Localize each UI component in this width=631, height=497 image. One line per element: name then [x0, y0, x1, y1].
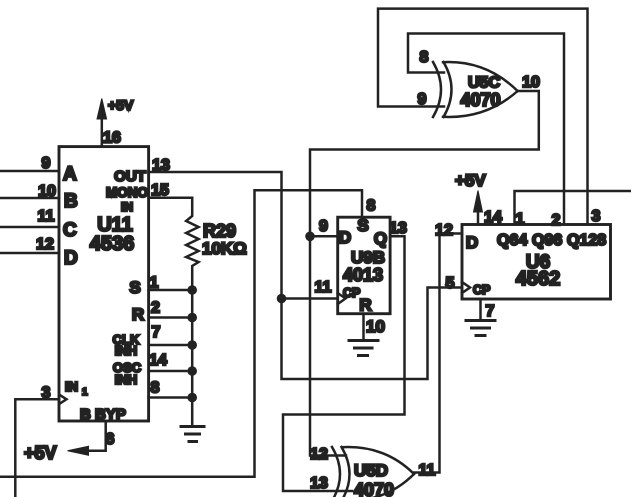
svg-text:OUT: OUT — [114, 168, 146, 185]
svg-text:Q64: Q64 — [497, 232, 527, 249]
xor gate U5C 4070 — [433, 62, 518, 117]
input wedge IN1 on U11 — [60, 395, 67, 404]
svg-text:1: 1 — [150, 275, 159, 292]
svg-text:4070: 4070 — [460, 90, 500, 110]
svg-text:13: 13 — [389, 220, 407, 237]
node junction at U9B D input — [305, 218, 338, 241]
svg-text:16: 16 — [103, 130, 121, 147]
power +5V pin 6 of U11 (arrow left) — [24, 421, 115, 463]
svg-text:3: 3 — [42, 385, 51, 402]
svg-text:9: 9 — [42, 155, 51, 172]
svg-text:4562: 4562 — [516, 268, 561, 290]
wire pin chain S R CLKINH OSCINH B to ground — [149, 275, 193, 426]
wire U5C input pin 9 from U6 pin 3 net — [378, 9, 588, 224]
ground U9B pin 10 — [349, 314, 385, 356]
svg-text:9: 9 — [319, 218, 328, 235]
svg-text:13: 13 — [152, 157, 170, 174]
svg-text:14: 14 — [484, 209, 502, 226]
ground below chain — [181, 427, 204, 442]
svg-text:12: 12 — [310, 446, 328, 463]
power +5V pin 14 of U6 — [455, 171, 502, 226]
svg-text:+5V: +5V — [108, 97, 134, 113]
svg-text:+5V: +5V — [24, 443, 57, 463]
xor gate U5D 4070 — [332, 447, 414, 497]
svg-text:15: 15 — [151, 182, 169, 199]
svg-text:S: S — [129, 278, 140, 297]
wire U9B Q pin 13 to U5D pin 13 — [283, 220, 407, 492]
svg-text:8: 8 — [367, 198, 376, 215]
svg-text:IN: IN — [65, 379, 78, 394]
clock wedge U6 CP — [462, 282, 470, 293]
power +5V pin 16 of U11 — [97, 97, 134, 147]
svg-text:B BYP: B BYP — [80, 406, 126, 423]
svg-text:INH: INH — [115, 372, 137, 387]
svg-text:14: 14 — [149, 352, 167, 369]
wire U6 D pin 12 from U5D output 11 — [414, 222, 462, 479]
wire input D (pin 12) — [0, 236, 59, 253]
svg-text:A: A — [63, 164, 77, 185]
svg-text:5: 5 — [446, 275, 455, 292]
svg-text:D: D — [64, 248, 78, 269]
svg-text:1: 1 — [516, 211, 525, 228]
node junction dots on chain — [187, 285, 197, 402]
svg-text:12: 12 — [36, 236, 54, 253]
resistor R29 10K — [186, 198, 247, 289]
svg-text:+5V: +5V — [455, 171, 486, 190]
svg-text:R: R — [132, 305, 144, 324]
svg-text:8: 8 — [420, 49, 429, 66]
flip-flop U9B 4013 body — [338, 216, 390, 315]
svg-text:U5D: U5D — [354, 461, 388, 480]
wire U6 pin 1 to right edge — [515, 191, 631, 228]
wire U5C output pin 10 to U9B.D and U5D.12 — [310, 74, 540, 456]
svg-text:13: 13 — [310, 475, 328, 492]
svg-text:2: 2 — [552, 212, 561, 229]
svg-text:10: 10 — [522, 74, 540, 91]
svg-text:10: 10 — [366, 317, 385, 336]
svg-text:U5C: U5C — [468, 75, 500, 92]
svg-text:IN: IN — [121, 200, 133, 214]
svg-text:Q96: Q96 — [532, 232, 562, 249]
svg-text:C: C — [63, 220, 77, 241]
wire OUT pin 13 net: U11.13 to U9B.CP and U6.CP — [149, 157, 462, 379]
svg-text:11: 11 — [419, 462, 436, 479]
svg-text:CP: CP — [473, 283, 490, 297]
svg-text:4536: 4536 — [90, 233, 135, 255]
svg-text:4070: 4070 — [354, 480, 394, 497]
svg-text:D: D — [339, 228, 351, 247]
svg-text:MONO: MONO — [106, 185, 148, 200]
svg-text:S: S — [357, 216, 368, 235]
svg-text:10KΩ: 10KΩ — [202, 239, 247, 258]
svg-text:R: R — [359, 296, 371, 315]
wire input C (pin 11) — [0, 208, 59, 227]
svg-text:3: 3 — [592, 208, 601, 225]
svg-text:INH: INH — [115, 343, 137, 358]
svg-text:6: 6 — [106, 431, 115, 448]
svg-text:D: D — [466, 233, 478, 252]
svg-text:12: 12 — [435, 222, 453, 239]
wire input B (pin 10) — [0, 183, 59, 200]
wire IN1 pin 3 net to U9B S pin 8 — [0, 190, 376, 497]
counter U6 4562 body — [462, 225, 611, 300]
svg-text:1: 1 — [82, 387, 88, 398]
IC U11 4536 body — [59, 147, 149, 423]
svg-text:9: 9 — [418, 91, 427, 108]
wire input A (pin 9) — [0, 155, 59, 172]
svg-text:8: 8 — [151, 380, 160, 397]
svg-text:B: B — [64, 191, 78, 212]
svg-text:11: 11 — [38, 208, 55, 225]
clock wedge U9B CP — [338, 293, 346, 304]
svg-text:R29: R29 — [203, 221, 236, 241]
svg-text:4013: 4013 — [343, 265, 383, 285]
svg-text:2: 2 — [151, 300, 160, 317]
wire U5C input pin 8 from U6 pin 2 net — [408, 34, 564, 225]
svg-text:Q128: Q128 — [567, 232, 606, 249]
svg-text:7: 7 — [152, 324, 161, 341]
svg-text:Q: Q — [374, 229, 387, 248]
node junction on pin13 net at U9B CP branch — [277, 279, 338, 303]
svg-text:11: 11 — [315, 279, 332, 296]
ground U6 pin 7 — [466, 299, 495, 336]
svg-text:10: 10 — [38, 183, 56, 200]
svg-text:7: 7 — [486, 303, 495, 320]
wire MONO IN pin 15 to R29 — [149, 182, 193, 199]
